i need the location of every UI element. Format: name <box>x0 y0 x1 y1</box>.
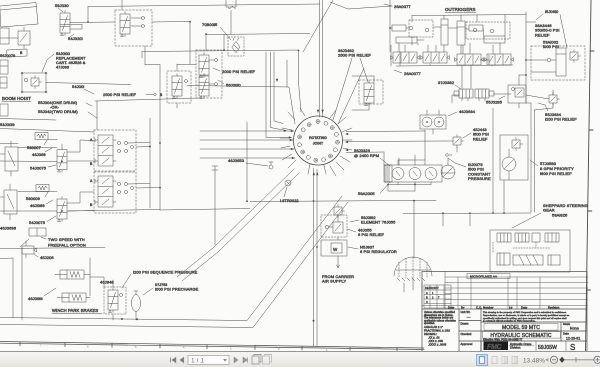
left valve stack upper <box>0 141 18 176</box>
wire outrigger top bus <box>412 15 526 23</box>
svg-text:7: 7 <box>40 344 42 348</box>
svg-text:46J0636: 46J0636 <box>0 226 17 231</box>
svg-text:be returned without prejudice: be returned without prejudice to FMC Cor… <box>483 320 536 323</box>
svg-text:FREEFALL OPTION: FREEFALL OPTION <box>48 243 86 248</box>
svg-text:2000 PSI RELIEF: 2000 PSI RELIEF <box>222 69 256 74</box>
svg-text:ROTATING: ROTATING <box>309 136 327 140</box>
wire top bus drops <box>444 14 505 36</box>
svg-text:FRACTIONAL ± 1/16: FRACTIONAL ± 1/16 <box>424 328 450 332</box>
valve 54J0075 lower <box>0 192 94 226</box>
engine pump group <box>384 158 455 182</box>
svg-text:54J0075: 54J0075 <box>30 166 47 171</box>
svg-text:Date: Date <box>521 306 528 310</box>
svg-text:TWO SPEED WITH: TWO SPEED WITH <box>48 237 85 242</box>
valve 56J0482 <box>352 76 383 110</box>
wire bus y34 <box>206 34 310 51</box>
wire y247 left <box>0 248 105 321</box>
svg-text:OUTRIGGERS: OUTRIGGERS <box>445 7 476 12</box>
slider knob <box>559 357 564 363</box>
svg-text:580009: 580009 <box>26 196 41 201</box>
svg-text:Drawn: Drawn <box>461 322 469 326</box>
wire outrigger bottom bus <box>396 52 513 66</box>
wires engine pump <box>388 130 431 191</box>
continuous mode btn <box>492 357 518 364</box>
boundary outline lower-left <box>0 196 348 328</box>
svg-text:W: W <box>333 247 338 252</box>
wire joint east bus <box>346 131 445 165</box>
valve top cut <box>226 0 236 34</box>
title block frame <box>422 272 587 352</box>
svg-text:None: None <box>570 327 579 331</box>
label 53A1002 <box>543 40 559 50</box>
label 53J0100 block <box>42 52 86 72</box>
svg-text:3: 3 <box>230 346 232 350</box>
wire top bus <box>88 4 320 22</box>
svg-text:By: By <box>461 306 465 310</box>
svg-text:l-8TR0022: l-8TR0022 <box>280 199 299 203</box>
wires right cluster <box>526 60 553 110</box>
text 55J004 drums <box>38 100 97 118</box>
svg-text:26A0077: 26A0077 <box>394 4 411 9</box>
zoom in <box>594 356 600 363</box>
svg-text:.XXX ± .005: .XXX ± .005 <box>428 339 443 343</box>
wire right cluster extras <box>480 22 536 85</box>
wire vertical pair joint down to border <box>314 168 318 346</box>
svg-text:l200 PSI RELIEF: l200 PSI RELIEF <box>545 117 577 122</box>
svg-text:specified.: specified. <box>424 322 435 325</box>
svg-text:53J00l9: 53J00l9 <box>0 122 15 127</box>
svg-text:—: — <box>467 315 471 319</box>
outrigger valve 1 <box>391 52 420 63</box>
svg-text:Approved: Approved <box>461 342 473 346</box>
svg-text:ANGULAR ± 1°: ANGULAR ± 1° <box>424 325 443 329</box>
svg-text:Ltr: Ltr <box>509 306 513 310</box>
svg-text:C: C <box>426 300 428 304</box>
label 57J0580 <box>530 160 574 176</box>
svg-text:RETROFIT: RETROFIT <box>425 286 439 290</box>
svg-text:Date: Date <box>448 306 455 310</box>
left edge rect mid <box>0 28 9 44</box>
svg-text:B: B <box>20 51 23 55</box>
svg-text:46J069: 46J069 <box>32 152 46 157</box>
wire y201 long to strainer <box>250 201 436 259</box>
svg-text:6 PSI REGULATOR: 6 PSI REGULATOR <box>360 249 397 254</box>
svg-text:FMC: FMC <box>487 344 503 351</box>
checked cell <box>461 332 472 336</box>
sheet right border <box>586 0 595 352</box>
svg-text:58J030: 58J030 <box>55 3 69 8</box>
left edge rect boom <box>0 104 8 116</box>
winch dir valve upper <box>90 130 150 171</box>
zoom out <box>550 356 557 363</box>
division text <box>509 342 534 350</box>
label 26A0077 top <box>384 4 411 9</box>
wires outrigger risers <box>399 43 500 54</box>
prev view btn <box>252 355 261 365</box>
svg-text:70B00l5: 70B00l5 <box>202 22 218 27</box>
label 56J0382 <box>438 80 461 89</box>
svg-text:53J0l00: 53J0l00 <box>56 52 70 56</box>
two speed box <box>20 228 86 248</box>
svg-text:PRESSURE: PRESSURE <box>468 176 491 181</box>
svg-text:46J848: 46J848 <box>100 280 114 285</box>
wire vertical pair top to joint <box>320 0 323 117</box>
twin pump 46J0634 <box>420 109 476 134</box>
wire y208 left <box>68 210 160 212</box>
wire x97 down to winch valve <box>0 101 97 132</box>
ruler numbers <box>40 344 328 352</box>
wire cylinder links <box>433 27 484 54</box>
microfilmed stamp <box>467 274 510 279</box>
wire outrigger left vertical <box>390 0 418 66</box>
drawn cell <box>461 322 469 326</box>
svg-text:B: B <box>160 93 163 97</box>
label 54J001 <box>72 84 94 94</box>
title text <box>483 324 561 342</box>
svg-text:2500 PSI RELIEF: 2500 PSI RELIEF <box>103 92 137 97</box>
wire triple vertical to joint NW <box>266 52 291 138</box>
left edge small valves top <box>0 60 8 88</box>
label 46J055 <box>347 228 385 238</box>
scale cell <box>563 322 579 331</box>
svg-text:26A0077: 26A0077 <box>404 71 421 76</box>
wire right vertical x531 pair <box>531 103 535 212</box>
dropdown caret <box>545 358 548 362</box>
label 54J0201 <box>68 34 83 41</box>
label 1200 psi sequence <box>122 270 198 289</box>
svg-text:46J09l8: 46J09l8 <box>28 296 43 301</box>
air relief 46J055 <box>321 205 347 238</box>
relief 55J0634 <box>538 93 577 122</box>
revision table rows <box>422 272 588 310</box>
accumulator 1000psi <box>132 283 199 320</box>
confidential note <box>483 311 569 322</box>
svg-text:5: 5 <box>135 345 137 349</box>
label N5J807 <box>348 245 397 255</box>
svg-text:45J206: 45J206 <box>40 255 54 260</box>
wire right vertical x526 <box>526 12 531 103</box>
svg-text:RELIEF: RELIEF <box>535 32 550 37</box>
relief 45J443 <box>445 135 464 153</box>
wire arrows near joint <box>290 110 348 175</box>
solenoid 580009 <box>26 185 53 209</box>
svg-text:46Jl069: 46Jl069 <box>30 203 45 208</box>
retrofit mini grid <box>424 285 451 308</box>
junction dots boundary <box>121 318 315 322</box>
svg-text:l200 PSI SEQUENCE PRESSURE: l200 PSI SEQUENCE PRESSURE <box>133 270 198 275</box>
svg-text:Date: Date <box>563 332 569 336</box>
wire y213 right long <box>403 213 531 226</box>
left valve stack lower <box>0 184 17 220</box>
svg-text:AIR SUPPLY: AIR SUPPLY <box>322 279 346 284</box>
date cell <box>563 332 580 341</box>
svg-text:A: A <box>426 291 428 295</box>
svg-text:1 / 1: 1 / 1 <box>191 358 204 365</box>
svg-text:55J042(TWO DRUM): 55J042(TWO DRUM) <box>38 109 78 114</box>
label 15J0610 <box>536 9 567 48</box>
svg-text:JOINT: JOINT <box>313 141 323 145</box>
svg-text:59A2005: 59A2005 <box>358 191 375 196</box>
svg-text:B: B <box>90 162 93 166</box>
label 2000 psi relief <box>213 68 256 74</box>
brake cylinder lower <box>57 293 90 302</box>
svg-text:BOOM HOIST: BOOM HOIST <box>2 96 31 101</box>
label 55J0285 <box>486 96 505 105</box>
gauge 1-8TR0022 <box>280 180 299 203</box>
svg-text:.XXXX ± .0005: .XXXX ± .0005 <box>428 342 447 346</box>
svg-text:Checked: Checked <box>461 332 472 336</box>
svg-text:3?J0382: 3?J0382 <box>438 80 455 85</box>
sequence valve 46J848 <box>90 277 126 320</box>
revision header row <box>448 306 560 310</box>
part number <box>536 341 575 352</box>
wire mid verticals <box>150 100 250 210</box>
valve 56J0010 <box>196 34 222 99</box>
wire y64 link top-center <box>145 52 196 100</box>
text winch park brakes <box>52 308 102 313</box>
tolerance notes <box>424 311 457 346</box>
label 56J0482 <box>338 48 372 82</box>
priority pump 57J0580 <box>500 135 528 180</box>
svg-text:55J0285: 55J0285 <box>486 100 503 105</box>
page input box <box>188 356 229 365</box>
wire 26A0077 leader long <box>330 2 392 9</box>
prev page btn <box>180 358 183 363</box>
wire x298 to joint <box>287 60 301 112</box>
air regulator W <box>321 237 347 268</box>
FMC logo <box>484 342 509 351</box>
svg-text:l000 PSI: l000 PSI <box>543 44 559 49</box>
svg-text:Scale: Scale <box>563 322 570 326</box>
label 56J0323 <box>354 148 390 166</box>
wire left long y95 <box>95 98 200 101</box>
wire diagonal NE to valve <box>303 0 364 124</box>
symbol drain <box>446 154 452 157</box>
svg-text:46J0634: 46J0634 <box>459 109 476 114</box>
svg-text:56J00l0: 56J00l0 <box>226 83 241 88</box>
label 56J0010 <box>218 80 241 88</box>
svg-text:DECIMAL:: DECIMAL: <box>424 332 437 336</box>
rotating joint <box>280 108 352 176</box>
wire left long y85 <box>46 83 295 125</box>
label 01J0079 <box>448 158 491 181</box>
winch dir valve lower <box>90 172 160 213</box>
brake cylinder upper <box>55 258 90 296</box>
sheet bottom ruler <box>0 342 424 352</box>
label 46J0918 <box>28 288 56 301</box>
svg-text:l600 PSI RELIEF: l600 PSI RELIEF <box>540 171 572 176</box>
svg-text:4: 4 <box>183 346 185 350</box>
svg-text:Revision: Revision <box>548 306 560 310</box>
text from carrier air supply <box>322 274 354 284</box>
svg-text:A: A <box>90 138 93 142</box>
label 36A3446 <box>535 23 560 37</box>
svg-text:B: B <box>90 203 93 207</box>
priority valve box <box>508 85 526 108</box>
svg-text:A: A <box>90 179 93 183</box>
single page mode btn selected <box>477 355 488 366</box>
valve cluster top-center <box>115 0 190 64</box>
svg-text:.XX ± .03: .XX ± .03 <box>428 336 440 340</box>
svg-text:46J0653: 46J0653 <box>228 158 245 163</box>
valve 58J030 <box>55 3 70 36</box>
steering gear box <box>490 230 570 272</box>
outrigger valve 4 <box>485 54 514 65</box>
last page btn <box>243 358 247 363</box>
valve 45J206 <box>22 241 54 260</box>
svg-text:6: 6 <box>87 344 89 348</box>
svg-text:RELIEF: RELIEF <box>473 136 488 141</box>
svg-text:47J096: 47J096 <box>56 66 69 70</box>
svg-text:13.48%: 13.48% <box>523 358 545 365</box>
check module boom hoist <box>21 72 47 93</box>
svg-text:56J0079: 56J0079 <box>0 54 15 58</box>
label 59J0192 element <box>350 215 396 225</box>
zoom slider <box>560 357 594 362</box>
valve mid 54J020 <box>167 64 191 108</box>
svg-text:12-23-91: 12-23-91 <box>566 337 580 341</box>
first page btn <box>171 358 176 363</box>
outrigger cyl group right <box>466 22 510 43</box>
wire right x493 <box>493 108 504 213</box>
wire outrigger to spool <box>452 65 511 103</box>
label 70B0015 <box>202 22 231 40</box>
svg-text:This drawing is the property o: This drawing is the property of FMC Corp… <box>483 311 567 314</box>
svg-text:Unit Wt.: Unit Wt. <box>461 310 471 314</box>
svg-text:59Al826: 59Al826 <box>552 212 568 217</box>
svg-text:CART. 46J526 &: CART. 46J526 & <box>56 61 86 65</box>
svg-text:Division: Division <box>510 346 521 350</box>
unit wt cell <box>461 310 472 319</box>
label 45J443 <box>463 127 489 141</box>
text boom hoist <box>2 96 31 101</box>
wire joint west bus <box>200 131 295 158</box>
valve 54J0075 upper <box>0 140 94 173</box>
wire valve58J030 <box>60 22 115 29</box>
next view btn <box>263 355 272 365</box>
wire bus y50 <box>142 50 299 82</box>
boom cylinder block top-left <box>0 3 38 58</box>
svg-text:l5J06l0: l5J06l0 <box>545 9 559 14</box>
svg-text:C.O. Number: C.O. Number <box>476 306 494 310</box>
strainer dome <box>394 257 432 281</box>
valve top-left small <box>0 27 30 49</box>
svg-text:@ 2400 RPM: @ 2400 RPM <box>354 153 379 158</box>
outrigger valve 2 <box>421 52 450 63</box>
wire strainer to border <box>404 278 422 292</box>
label 2500 psi relief left <box>103 92 163 97</box>
label sheppard steering <box>512 203 588 228</box>
svg-text:l000 PSI PRECHARGE: l000 PSI PRECHARGE <box>155 287 199 292</box>
svg-text:54J00l: 54J00l <box>72 84 84 89</box>
wire x215 vertical <box>212 166 218 245</box>
svg-text:specifically authorized in wri: specifically authorized in writing, and … <box>483 317 567 320</box>
label 26A0077 lower <box>394 70 421 76</box>
spool valve 56J0382 <box>454 89 494 101</box>
wire diagonal pair joint to winch area <box>177 169 299 281</box>
solenoid 580007 <box>27 133 52 158</box>
accumulator cluster right <box>531 46 585 80</box>
outrigger cyl group left <box>392 20 433 43</box>
label 59A2005 <box>358 182 390 196</box>
svg-text:6 PSI RELIEF: 6 PSI RELIEF <box>358 232 385 237</box>
svg-text:ELEMENT 76J055: ELEMENT 76J055 <box>361 220 396 225</box>
text outriggers <box>445 7 476 12</box>
svg-text:Reproduction, use or disclosur: Reproduction, use or disclosure, in whol… <box>483 314 569 317</box>
svg-text:2600 PSI RELIEF: 2600 PSI RELIEF <box>338 53 372 58</box>
check valve 70B0015 <box>228 37 244 56</box>
gauge 46J0653 <box>228 158 273 169</box>
svg-text:B: B <box>426 296 428 300</box>
next page btn <box>234 358 237 363</box>
svg-text:54J0075: 54J0075 <box>29 220 46 225</box>
approved cell <box>461 342 473 346</box>
outrigger valve 3 <box>455 54 484 65</box>
svg-text:MICROFILMED AA: MICROFILMED AA <box>470 275 497 279</box>
svg-text:REPLACEMENT: REPLACEMENT <box>56 57 86 61</box>
svg-text:WINCH PARK BRAKES: WINCH PARK BRAKES <box>52 308 98 313</box>
outrigger cyl vertical pair <box>441 19 465 45</box>
